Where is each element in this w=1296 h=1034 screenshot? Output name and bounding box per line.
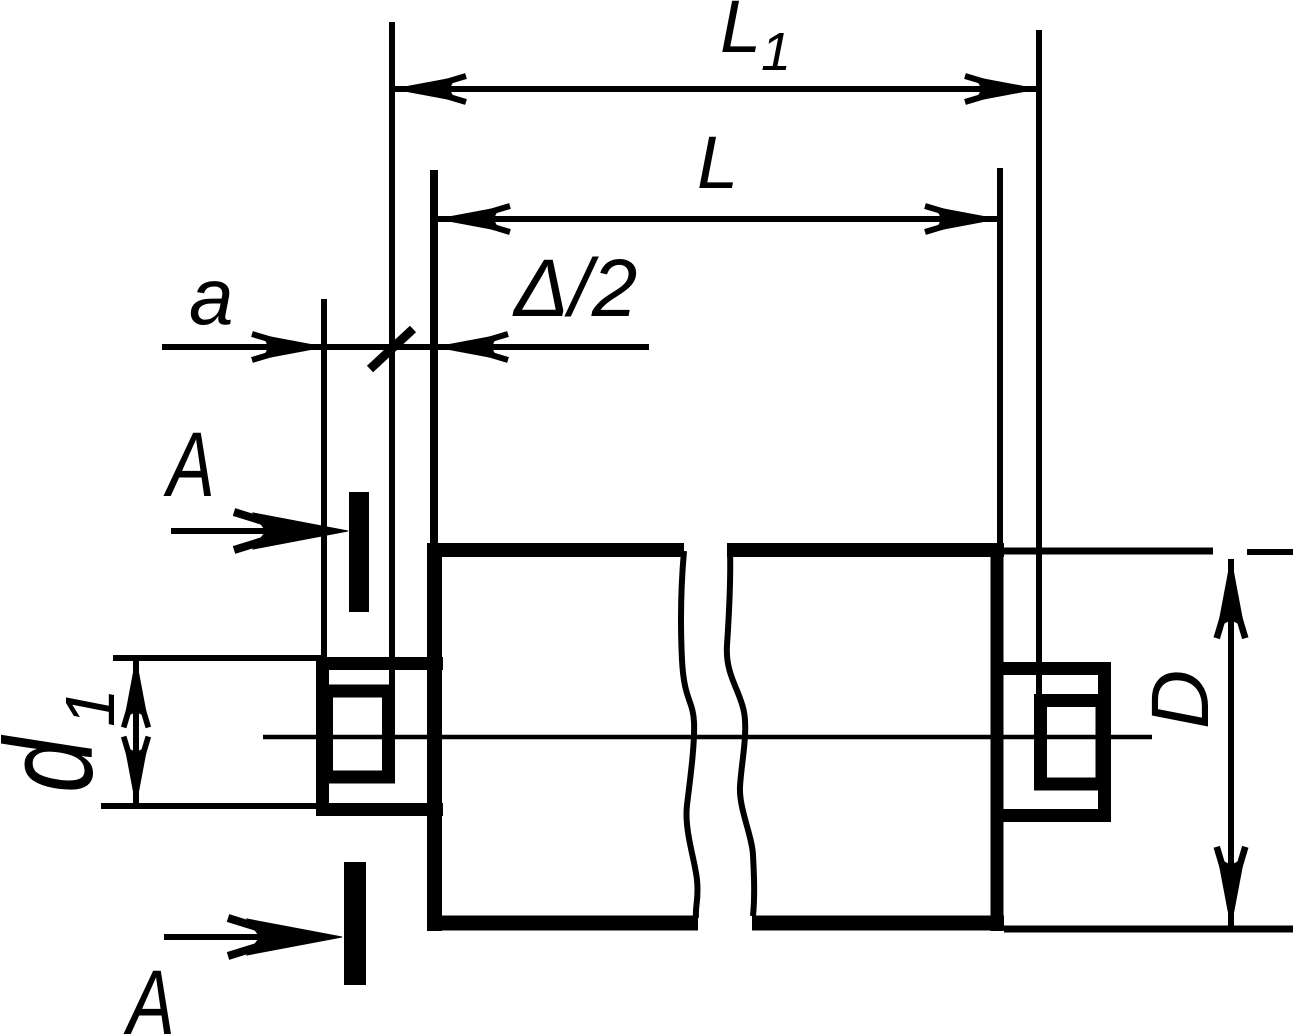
roller body right edge xyxy=(991,543,1004,931)
svg-text:a: a xyxy=(189,252,234,341)
svg-text:A: A xyxy=(123,951,175,1034)
right journal outer bracket xyxy=(991,669,1105,816)
section arrow A bottom shaft xyxy=(164,934,305,940)
section arrow A top head xyxy=(234,512,348,550)
roller top edge left part xyxy=(427,543,684,557)
D arrow down xyxy=(1217,847,1246,926)
dimension line L1 xyxy=(394,86,1036,92)
left journal outer bracket xyxy=(323,664,444,810)
top extension toward D xyxy=(1004,548,1213,555)
section line A top thick bar xyxy=(349,492,369,612)
dimension line a and Delta/2 (y=347) xyxy=(162,344,649,350)
roller bottom edge left part xyxy=(427,916,698,931)
axis center line xyxy=(263,735,1152,740)
oblique tick at x=392 xyxy=(370,329,413,369)
arrowhead a (pointing right, tip at x=324) xyxy=(252,334,324,360)
d1 arrow up xyxy=(124,659,149,727)
bottom extension toward D xyxy=(1004,926,1293,933)
extension line L left (x=434) xyxy=(430,170,438,548)
D dimension line xyxy=(1228,559,1234,926)
right journal inner rectangle xyxy=(1041,701,1103,785)
svg-text:A: A xyxy=(163,413,215,516)
top extension dash right xyxy=(1247,549,1293,555)
extension line L1 left / a right (x=392) xyxy=(389,22,395,695)
svg-text:1: 1 xyxy=(51,688,129,727)
arrowhead L left xyxy=(438,206,510,232)
svg-text:L: L xyxy=(697,121,738,204)
section arrow A bottom head xyxy=(228,918,342,956)
section line A bottom thick bar xyxy=(344,862,366,985)
extension line L right (x=1000) xyxy=(997,168,1003,548)
roller top edge right part xyxy=(727,543,1004,557)
extension line L1 right (x=1039) xyxy=(1036,30,1042,700)
svg-text:L: L xyxy=(720,0,761,68)
svg-text:D: D xyxy=(1135,670,1226,729)
d1 dimension line xyxy=(133,658,139,806)
arrowhead Delta/2 (pointing left, tip at x=436) xyxy=(436,334,508,360)
D arrow up xyxy=(1217,559,1246,638)
d1 arrow down xyxy=(124,737,149,805)
roller bottom edge right part xyxy=(752,916,1004,931)
section arrow A top shaft xyxy=(171,528,310,534)
d1 extension line top xyxy=(113,655,323,661)
roller body left edge xyxy=(427,543,442,931)
arrowhead L1 right xyxy=(965,76,1037,102)
left journal inner rectangle xyxy=(327,691,389,777)
dimension line L xyxy=(436,216,998,222)
svg-text:Δ/2: Δ/2 xyxy=(512,243,637,334)
arrowhead L right xyxy=(925,206,997,232)
break line left (wavy) xyxy=(681,551,698,918)
d1 extension line bottom xyxy=(101,803,323,809)
arrowhead L1 left xyxy=(394,76,466,102)
svg-text:1: 1 xyxy=(761,22,791,82)
extension line left of dimension a (x=324) xyxy=(321,299,327,660)
svg-text:d: d xyxy=(0,735,119,793)
break line right (wavy) xyxy=(727,549,754,916)
